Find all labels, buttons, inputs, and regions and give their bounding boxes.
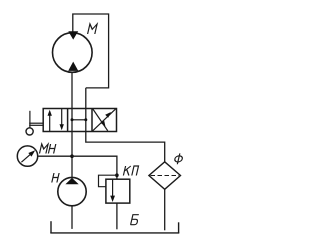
wire: gauge to pump line <box>38 155 72 157</box>
wire: valve port B/T line down and right to filter <box>86 88 165 162</box>
wire: filter output to tank <box>164 189 166 230</box>
valve left square: down arrow <box>60 109 64 130</box>
label Н <box>52 173 59 183</box>
valve middle square: bridge between A and B lines <box>71 118 88 121</box>
wire: motor bottom through valve to pump (A/P line) <box>71 72 73 177</box>
filter Ф <box>149 162 181 190</box>
tank Б <box>50 221 179 233</box>
pressure gauge МН <box>17 146 37 166</box>
wire: pump line to relief valve КП <box>72 156 117 179</box>
hydraulic motor M <box>53 31 93 72</box>
label МН <box>40 144 56 154</box>
label М <box>88 24 98 34</box>
junction at КП pilot tap <box>115 173 119 177</box>
valve left square: up arrow <box>48 110 52 131</box>
directional control valve body (3-position) <box>43 109 116 132</box>
wire: КП output to tank <box>116 203 118 229</box>
wire: motor top port loop to valve port B <box>73 14 109 88</box>
valve right square: crossed arrows <box>93 109 116 131</box>
junction on pump line <box>70 154 74 158</box>
pump Н <box>58 177 86 205</box>
wire: pump suction from tank <box>71 206 73 229</box>
relief valve КП <box>99 175 130 203</box>
label Б <box>131 215 139 225</box>
label КП <box>123 166 138 176</box>
label Ф <box>174 153 184 164</box>
manual lever control <box>26 111 43 135</box>
